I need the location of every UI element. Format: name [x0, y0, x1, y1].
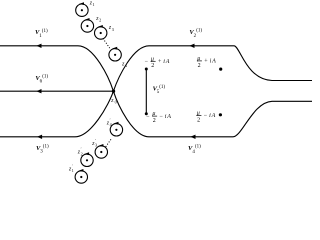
- svg-text:(1): (1): [42, 75, 48, 80]
- svg-text:A: A: [165, 59, 170, 65]
- node -mu/2+iA (top endpoint dot): [145, 68, 148, 71]
- svg-text:+: +: [204, 59, 208, 65]
- node mu/2-iA (dot): [219, 113, 222, 116]
- svg-text:2: 2: [99, 18, 101, 23]
- label z3: [108, 25, 114, 32]
- label V3(1): [36, 144, 49, 154]
- label z4: [121, 61, 127, 68]
- svg-text:(1): (1): [42, 29, 48, 34]
- pole circle z4: [109, 47, 121, 61]
- svg-text:3: 3: [95, 143, 97, 148]
- svg-text:A: A: [211, 113, 216, 119]
- svg-text:3: 3: [112, 27, 114, 32]
- arrow on V2 (top-right): [189, 44, 194, 48]
- node mu/2+iA (dot): [219, 68, 222, 71]
- label z0: [110, 98, 116, 105]
- label -mu/2+iA (top center): [144, 56, 170, 69]
- pole circle z3: [95, 25, 107, 39]
- svg-text:2: 2: [197, 117, 200, 123]
- dotted connector z3..z4: [103, 39, 110, 49]
- wire: vertical contour V5 between branch points: [145, 69, 147, 114]
- pole circle z3': [95, 144, 107, 158]
- svg-text:2: 2: [198, 63, 201, 69]
- pole circle z1: [76, 2, 88, 16]
- label z2': [77, 147, 83, 157]
- label V1(1): [35, 29, 48, 39]
- svg-text:(1): (1): [196, 29, 202, 34]
- arrow on V3 (bottom-left): [37, 135, 42, 139]
- svg-text:1: 1: [72, 168, 74, 173]
- svg-text:2: 2: [151, 63, 154, 69]
- svg-text:(1): (1): [195, 145, 201, 150]
- svg-text:−: −: [146, 114, 150, 120]
- wire: contour curve 1 (upper-left flat, S-down through z0, lower-right flat, rise to right edge): [0, 46, 312, 137]
- svg-text:1: 1: [93, 2, 95, 7]
- label z1: [89, 0, 95, 7]
- node -mu/2-iA (bottom endpoint dot): [145, 112, 148, 115]
- arrow on V4 (bottom-right): [190, 135, 195, 139]
- pole circle z1': [75, 169, 87, 183]
- label -mu/2-iA (bottom center): [146, 111, 172, 124]
- pole circle z2': [81, 152, 93, 166]
- label V5(1): [153, 85, 166, 95]
- svg-text:2: 2: [81, 151, 83, 156]
- svg-text:0: 0: [115, 100, 117, 105]
- label mu/2-iA (bottom right): [196, 110, 215, 123]
- label z2: [95, 16, 101, 23]
- svg-text:4: 4: [110, 122, 112, 127]
- label V6(1): [35, 75, 48, 85]
- svg-text:A: A: [166, 114, 171, 120]
- label mu/2+iA (top right): [197, 56, 216, 69]
- arrow on V1 (top-left): [36, 44, 41, 48]
- svg-text:−: −: [204, 113, 208, 119]
- svg-text:4: 4: [125, 63, 127, 68]
- arrow on V6 (middle-left): [36, 89, 41, 93]
- wire: contour curve 2 (lower-left flat, S-up through z0, upper-right flat, drop to right edge): [0, 46, 312, 137]
- label V4(1): [188, 145, 201, 155]
- label z1': [68, 164, 74, 174]
- node z0 (crossing dot): [112, 90, 115, 93]
- label z3': [91, 138, 97, 148]
- svg-text:(1): (1): [159, 85, 165, 90]
- dotted connector z3'..z4': [106, 138, 112, 147]
- svg-text:A: A: [211, 59, 216, 65]
- svg-text:2: 2: [153, 118, 156, 124]
- pole circle z2: [81, 18, 93, 32]
- svg-text:(1): (1): [43, 144, 49, 149]
- wire: middle-left horizontal contour V6: [0, 90, 113, 92]
- svg-text:−: −: [144, 59, 148, 65]
- pole circle z4': [110, 122, 122, 136]
- label V2(1): [189, 29, 202, 39]
- label z4': [106, 118, 112, 128]
